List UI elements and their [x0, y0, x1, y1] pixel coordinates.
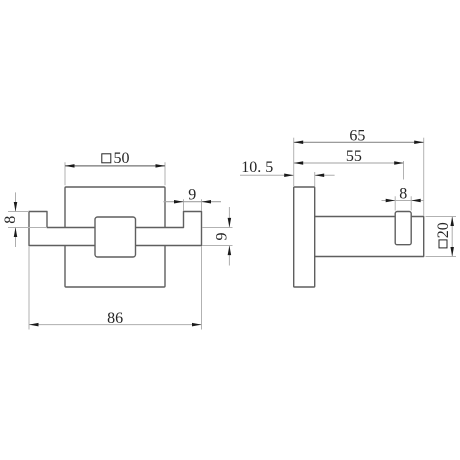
dimension 8 (side hook) extension lines — [395, 196, 411, 210]
dimension 86 line — [29, 324, 202, 326]
dimension 86 arrows — [29, 323, 202, 327]
dimension square-50 extension lines — [65, 162, 165, 185]
dimension 9 (bar height right) arrows — [228, 218, 232, 255]
dimension 9 (bar height right) extension lines — [202, 228, 233, 246]
svg-text:9: 9 — [214, 233, 231, 241]
dimension 8 (left hook height) extension lines — [8, 212, 47, 228]
dimension 10.5 arrows — [284, 173, 324, 177]
svg-text:8: 8 — [399, 186, 407, 203]
dimension 65 arrows — [294, 141, 424, 145]
dimension square-50 line — [65, 165, 165, 167]
back plate square 50x50 (front view) — [65, 187, 165, 287]
dimension 9 (top right hook) extension lines — [184, 199, 202, 211]
dimension 8 (left hook height) arrows — [14, 202, 18, 237]
dimension 65 extension lines — [294, 138, 424, 216]
dimension 10.5 leader line — [240, 174, 294, 176]
svg-text:8: 8 — [2, 216, 19, 224]
svg-text:9: 9 — [188, 186, 196, 203]
bar with end hooks (front view outline) — [29, 212, 202, 246]
dimension 8 (side hook) arrows — [386, 199, 421, 203]
dimension 9 (top right hook) line — [164, 201, 222, 203]
svg-text:10. 5: 10. 5 — [241, 159, 273, 176]
dimension square-20 line — [451, 217, 453, 257]
dimension 9 (top right hook) arrows — [174, 200, 211, 204]
dimension 8 (left hook height) label rotated — [2, 216, 19, 224]
dimension 8 (left hook height) line — [15, 192, 17, 247]
dimension 65 line — [294, 141, 424, 143]
svg-text:55: 55 — [346, 148, 362, 165]
arm (side view) — [315, 217, 424, 257]
dimension 55 extension line — [403, 161, 405, 180]
dimension square-50 arrows — [65, 164, 165, 168]
dimension square-20 label rotated — [435, 222, 452, 248]
dimension 9 (bar height right) line — [228, 207, 230, 266]
svg-text:65: 65 — [349, 128, 365, 145]
center hub square 20x20 (front view) — [95, 217, 136, 257]
dimension square-50 label — [102, 150, 130, 167]
dimension square-20 arrows — [450, 217, 454, 257]
svg-text:20: 20 — [435, 222, 452, 238]
dimension 9 (bar height right) label rotated — [214, 233, 231, 241]
dimension 10.5 extension line — [314, 172, 316, 187]
dimension 86 extension lines — [29, 246, 202, 329]
svg-text:86: 86 — [107, 310, 123, 327]
dimension 55 arrows — [294, 161, 404, 165]
dimension square-20 extension lines — [426, 217, 457, 257]
dimension 10.5 right tail — [315, 174, 335, 176]
dimension 8 (side hook) line — [382, 200, 425, 202]
dimension 55 line — [294, 162, 404, 164]
hook post (side view) — [395, 212, 411, 245]
svg-text:50: 50 — [114, 150, 130, 167]
wall plate (side view) — [294, 187, 315, 287]
